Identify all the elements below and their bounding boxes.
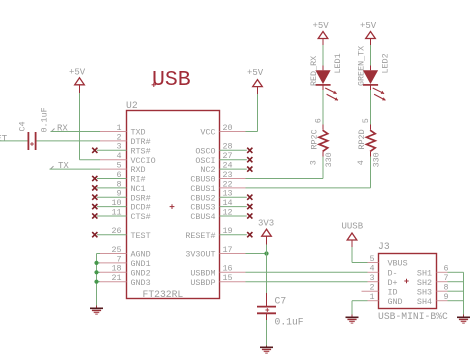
wire: net RX to U2 pin 1 TXD [51, 131, 101, 133]
junction dots on ground bus [94, 261, 98, 265]
LED LED2 GREEN_TX [363, 70, 378, 84]
svg-text:+5V: +5V [313, 21, 330, 31]
svg-text:RP2C: RP2C [310, 129, 320, 149]
svg-text:CTS#: CTS# [131, 212, 151, 222]
svg-text:+5V: +5V [69, 67, 86, 77]
wire: net TX to U2 pin 5 RXD [50, 168, 101, 170]
svg-text:ID: ID [388, 287, 398, 297]
wire: 3V3 node down to C7 [266, 254, 268, 294]
wire: net SET to C4 left plate [0, 140, 28, 142]
svg-text:CBUS4: CBUS4 [190, 212, 215, 222]
wire: USBDM (pin 16) to J3 D- [246, 271, 368, 273]
svg-text:SH3: SH3 [417, 287, 432, 297]
svg-text:330: 330 [372, 152, 382, 167]
svg-text:RX: RX [57, 124, 68, 134]
svg-text:4: 4 [356, 160, 366, 165]
power 3V3 [266, 245, 268, 254]
svg-text:USB: USB [152, 68, 191, 92]
wire: +5V to LED2 anode [370, 39, 372, 46]
wire: U2 AGND/GND1/GND2/GND3 bus to ground [97, 253, 101, 255]
svg-text:RED_RX: RED_RX [309, 56, 319, 86]
svg-text:6: 6 [314, 118, 324, 123]
wire: UUSB to J3 VBUS [351, 240, 353, 247]
svg-text:D+: D+ [388, 278, 398, 288]
svg-text:LED2: LED2 [380, 53, 390, 73]
junction dot 3V3 node [264, 251, 268, 255]
resistor RP2D 330 [367, 130, 376, 151]
svg-text:3: 3 [308, 160, 318, 165]
svg-text:GREEN_TX: GREEN_TX [357, 46, 367, 86]
svg-text:SH2: SH2 [417, 278, 432, 288]
wire: 3V3OUT (pin 17) to node 3V3 [246, 253, 267, 255]
svg-text:SH4: SH4 [417, 297, 432, 307]
svg-text:TEST: TEST [131, 231, 151, 241]
svg-text:USBDP: USBDP [190, 278, 215, 288]
svg-text:SET: SET [0, 134, 8, 144]
resistor RP2C 330 [319, 130, 328, 151]
wire: USBDP (pin 15) to J3 D+ [246, 281, 368, 283]
svg-text:C4: C4 [18, 121, 28, 131]
connector J3 USB-MINI-B body [379, 254, 437, 309]
svg-text:GND: GND [388, 297, 403, 307]
ground symbol (C7) [260, 346, 273, 348]
svg-text:VBUS: VBUS [388, 259, 408, 269]
svg-text:TX: TX [58, 161, 69, 171]
svg-text:VCC: VCC [200, 128, 215, 138]
wire: +5V to LED1 anode [322, 39, 324, 46]
svg-text:3V3: 3V3 [258, 219, 274, 229]
svg-text:GND3: GND3 [131, 278, 151, 288]
capacitor C7 0.1uF [257, 306, 276, 308]
svg-text:RP2D: RP2D [357, 129, 367, 149]
wire: J3 shield SH1-SH4 bus to ground [448, 271, 464, 273]
IC U2 FT232RL body [127, 111, 220, 299]
svg-text:330: 330 [324, 152, 334, 167]
wire: U2 VCC (pin 20) to +5V [246, 131, 258, 133]
LED LED1 RED_RX [315, 70, 330, 84]
svg-text:RESET#: RESET# [185, 231, 215, 241]
svg-text:LED1: LED1 [333, 53, 343, 73]
ground symbol (J3 GND) [346, 316, 359, 318]
wire: LED2 cathode to RP2D [370, 85, 372, 90]
svg-text:U2: U2 [126, 100, 138, 111]
J3 origin cross [404, 280, 408, 282]
wire: LED1 cathode to RP2C [322, 85, 324, 90]
svg-text:+5V: +5V [360, 21, 377, 31]
svg-text:+5V: +5V [247, 68, 264, 78]
wire: +5V down to U2 pin 4 VCCIO [79, 85, 81, 93]
svg-text:0.1uF: 0.1uF [40, 107, 50, 132]
capacitor C4 0.1uF [27, 132, 29, 150]
wire: CBUS1 (pin 22) to RP2D [246, 187, 371, 189]
wire: CBUS0 (pin 23) to RP2C [246, 178, 324, 180]
wire: J3 GND to ground [352, 300, 368, 302]
svg-text:USB-MINI-B%C: USB-MINI-B%C [378, 311, 448, 322]
wire: C7 to ground [266, 313, 268, 320]
svg-text:5: 5 [361, 118, 371, 123]
svg-text:C7: C7 [275, 296, 287, 307]
svg-text:3V3OUT: 3V3OUT [185, 250, 215, 260]
svg-text:0.1uF: 0.1uF [275, 316, 304, 327]
ground symbol (U2 GND) [90, 307, 103, 309]
svg-text:J3: J3 [378, 241, 390, 252]
U2 origin cross [170, 206, 175, 208]
svg-text:UUSB: UUSB [342, 222, 364, 232]
ground symbol (J3 shield) [457, 316, 470, 318]
svg-text:FT232RL: FT232RL [143, 289, 184, 300]
wire: C4 to U2 pin 2 DTR# [37, 140, 101, 142]
